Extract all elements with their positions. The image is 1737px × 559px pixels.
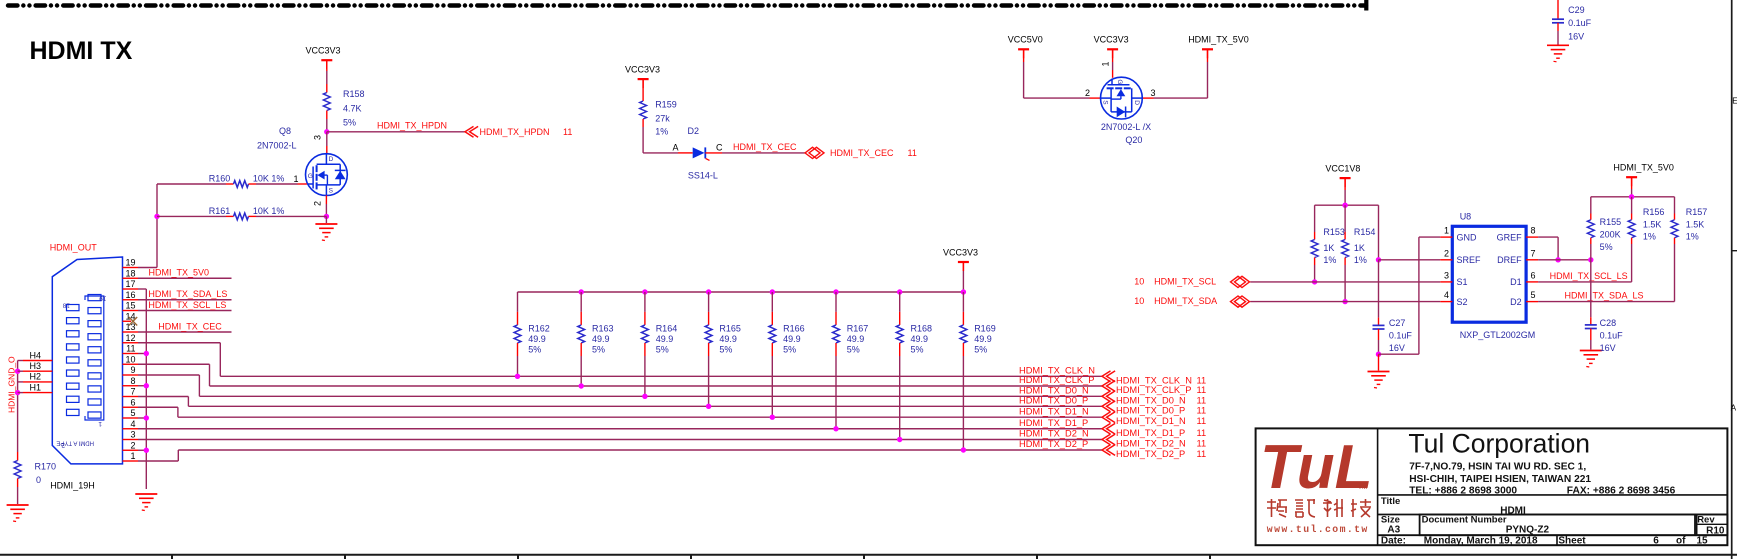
svg-text:5%: 5% [656, 345, 669, 355]
svg-text:3: 3 [1444, 270, 1449, 280]
svg-text:6: 6 [130, 397, 135, 407]
svg-text:2: 2 [1085, 88, 1090, 98]
svg-text:R165: R165 [719, 324, 741, 334]
svg-text:Title: Title [1381, 496, 1400, 507]
svg-text:R157: R157 [1686, 207, 1708, 217]
svg-text:16V: 16V [1600, 343, 1616, 353]
svg-text:D2: D2 [688, 126, 700, 136]
svg-text:8: 8 [1531, 226, 1536, 236]
svg-text:HDMI_TX_D1_N: HDMI_TX_D1_N [1116, 416, 1186, 426]
svg-text:HDMI_TX_HPDN: HDMI_TX_HPDN [377, 120, 447, 130]
svg-text:D2: D2 [1510, 297, 1522, 307]
svg-text:HDMI_TX_CEC: HDMI_TX_CEC [158, 321, 222, 331]
svg-text:1: 1 [98, 420, 102, 427]
svg-text:HDMI_TX_D1_N: HDMI_TX_D1_N [1019, 406, 1089, 416]
svg-text:Q8: Q8 [279, 126, 291, 136]
svg-text:R156: R156 [1643, 207, 1665, 217]
svg-text:1K: 1K [1323, 243, 1334, 253]
svg-text:1K: 1K [1354, 243, 1365, 253]
svg-text:Sheet: Sheet [1558, 536, 1586, 547]
svg-text:5%: 5% [783, 345, 796, 355]
svg-text:HDMI_TX_D0_N: HDMI_TX_D0_N [1019, 386, 1089, 396]
svg-text:A: A [673, 142, 679, 152]
svg-text:1: 1 [1444, 226, 1449, 236]
svg-text:S2: S2 [1457, 297, 1468, 307]
svg-text:11: 11 [1197, 395, 1207, 405]
svg-text:R163: R163 [592, 324, 614, 334]
svg-text:1: 1 [130, 451, 135, 461]
svg-text:HDMI_TX_SCL_LS: HDMI_TX_SCL_LS [148, 300, 226, 310]
svg-text:5%: 5% [343, 118, 356, 128]
svg-text:11: 11 [563, 127, 572, 137]
svg-text:4.7K: 4.7K [343, 104, 362, 114]
svg-text:R166: R166 [783, 324, 805, 334]
svg-text:5%: 5% [911, 345, 924, 355]
svg-text:TuL: TuL [1260, 433, 1373, 502]
svg-text:16V: 16V [1389, 343, 1405, 353]
svg-text:R153: R153 [1323, 227, 1345, 237]
svg-text:VCC3V3: VCC3V3 [625, 65, 660, 75]
svg-text:1%: 1% [1323, 255, 1336, 265]
svg-text:9: 9 [130, 365, 135, 375]
svg-text:HDMI_TX_D0_N: HDMI_TX_D0_N [1116, 395, 1186, 405]
svg-text:R154: R154 [1354, 227, 1376, 237]
svg-text:5%: 5% [847, 345, 860, 355]
svg-text:5%: 5% [592, 345, 605, 355]
svg-text:C29: C29 [1568, 5, 1585, 15]
svg-text:FAX: +886 2 8698 3456: FAX: +886 2 8698 3456 [1567, 486, 1676, 497]
svg-text:15: 15 [125, 301, 135, 311]
svg-text:49.9: 49.9 [719, 334, 737, 344]
svg-text:11: 11 [1197, 439, 1207, 449]
svg-text:A: A [1731, 404, 1737, 413]
svg-text:R164: R164 [656, 324, 678, 334]
svg-text:HDMI_TX_CLK_N: HDMI_TX_CLK_N [1116, 375, 1192, 385]
svg-text:VCC3V3: VCC3V3 [943, 248, 978, 258]
svg-text:SS14-L: SS14-L [688, 171, 718, 181]
svg-text:12: 12 [125, 333, 135, 343]
svg-text:18: 18 [125, 268, 135, 278]
svg-text:HDMI_TX_HPDN: HDMI_TX_HPDN [480, 127, 550, 137]
svg-text:200K: 200K [1600, 229, 1621, 239]
svg-text:HDMI TX: HDMI TX [30, 37, 133, 65]
svg-text:HDMI_TX_D2_P: HDMI_TX_D2_P [1116, 449, 1185, 459]
svg-text:19: 19 [99, 295, 107, 302]
svg-text:U8: U8 [1460, 212, 1472, 222]
svg-text:HDMI_GND_O: HDMI_GND_O [7, 356, 17, 413]
svg-text:1: 1 [294, 174, 299, 184]
svg-text:HSI-CHIH, TAIPEI HSIEN, TAI: HSI-CHIH, TAIPEI HSIEN, TAIWAN 221 [1409, 474, 1591, 485]
svg-text:C27: C27 [1389, 318, 1406, 328]
svg-text:PYNQ-Z2: PYNQ-Z2 [1506, 524, 1550, 535]
svg-text:HDMI_TX_CLK_P: HDMI_TX_CLK_P [1116, 385, 1191, 395]
svg-text:H1: H1 [30, 382, 42, 392]
svg-text:D: D [329, 156, 334, 163]
svg-text:2: 2 [313, 201, 323, 206]
svg-text:C28: C28 [1600, 318, 1617, 328]
svg-text:6: 6 [1653, 536, 1659, 547]
svg-text:11: 11 [1197, 416, 1207, 426]
svg-text:HDMI_TX_D2_N: HDMI_TX_D2_N [1019, 429, 1089, 439]
svg-text:HDMI_TX_D1_P: HDMI_TX_D1_P [1116, 428, 1185, 438]
svg-text:49.9: 49.9 [847, 334, 865, 344]
svg-text:8: 8 [130, 376, 135, 386]
svg-text:6: 6 [1531, 270, 1536, 280]
svg-text:HDMI_19H: HDMI_19H [50, 481, 95, 491]
svg-text:10: 10 [1134, 296, 1144, 306]
svg-text:HDMI_TX_SDA_LS: HDMI_TX_SDA_LS [1565, 291, 1644, 301]
svg-text:GND: GND [1457, 232, 1478, 242]
svg-text:HDMI_OUT: HDMI_OUT [50, 243, 98, 253]
svg-text:0: 0 [36, 475, 41, 485]
svg-text:HDMI_TX_5V0: HDMI_TX_5V0 [1613, 162, 1674, 172]
svg-text:H3: H3 [30, 361, 42, 371]
svg-text:R160: R160 [209, 174, 231, 184]
svg-text:HDMI_TX_D0_P: HDMI_TX_D0_P [1116, 405, 1185, 415]
svg-text:R159: R159 [655, 100, 677, 110]
svg-text:R162: R162 [528, 324, 550, 334]
svg-text:49.9: 49.9 [592, 334, 610, 344]
svg-text:0.1uF: 0.1uF [1389, 331, 1413, 341]
svg-text:H4: H4 [30, 350, 42, 360]
svg-text:R168: R168 [911, 324, 933, 334]
svg-text:Date:: Date: [1381, 536, 1406, 547]
svg-text:G: G [308, 173, 313, 180]
svg-text:HDMI_TX_CLK_N: HDMI_TX_CLK_N [1019, 366, 1095, 376]
svg-text:18: 18 [62, 302, 70, 309]
svg-text:HDMI_TX_CEC: HDMI_TX_CEC [733, 142, 797, 152]
svg-text:49.9: 49.9 [974, 334, 992, 344]
svg-text:TM: TM [1358, 484, 1367, 491]
svg-text:10K 1%: 10K 1% [253, 206, 285, 216]
svg-text:Document Number: Document Number [1422, 515, 1507, 526]
svg-text:HDMI_TX_SCL_LS: HDMI_TX_SCL_LS [1550, 271, 1628, 281]
svg-text:HDMI A TYPE: HDMI A TYPE [56, 440, 94, 446]
svg-text:15: 15 [1697, 536, 1709, 547]
svg-text:5%: 5% [974, 345, 987, 355]
svg-text:HDMI_TX_D0_P: HDMI_TX_D0_P [1019, 396, 1088, 406]
svg-text:D1: D1 [1510, 277, 1522, 287]
svg-text:1.5K: 1.5K [1686, 219, 1705, 229]
svg-text:Rev: Rev [1697, 515, 1715, 526]
svg-text:VCC1V8: VCC1V8 [1325, 164, 1360, 174]
svg-text:R170: R170 [35, 461, 57, 471]
svg-text:Monday, March 19, 2018: Monday, March 19, 2018 [1424, 536, 1538, 547]
svg-text:3: 3 [313, 135, 323, 140]
svg-text:VCC5V0: VCC5V0 [1008, 35, 1043, 45]
svg-text:7F-7,NO.79, HSIN TAI WU RD: 7F-7,NO.79, HSIN TAI WU RD. SEC 1, [1409, 461, 1586, 472]
svg-text:DREF: DREF [1497, 255, 1522, 265]
svg-text:R10: R10 [1706, 526, 1725, 537]
svg-text:of: of [1676, 536, 1686, 547]
svg-text:0.1uF: 0.1uF [1568, 18, 1592, 28]
svg-text:2: 2 [130, 440, 135, 450]
svg-text:GREF: GREF [1497, 232, 1523, 242]
svg-text:2N7002-L /X: 2N7002-L /X [1101, 122, 1151, 132]
svg-text:S1: S1 [1457, 277, 1468, 287]
svg-text:4: 4 [1444, 290, 1449, 300]
svg-text:2: 2 [1444, 248, 1449, 258]
svg-text:16V: 16V [1568, 31, 1584, 41]
svg-text:19: 19 [125, 258, 135, 268]
svg-text:R167: R167 [847, 324, 869, 334]
svg-text:HDMI_TX_D1_P: HDMI_TX_D1_P [1019, 418, 1088, 428]
svg-text:1%: 1% [1643, 232, 1656, 242]
svg-text:27k: 27k [655, 114, 670, 124]
svg-text:TEL: +886 2 8698 3000: TEL: +886 2 8698 3000 [1409, 486, 1517, 497]
svg-text:7: 7 [130, 387, 135, 397]
svg-text:VCC3V3: VCC3V3 [1094, 35, 1129, 45]
svg-text:3: 3 [130, 430, 135, 440]
svg-text:5: 5 [130, 408, 135, 418]
svg-text:H2: H2 [30, 372, 42, 382]
svg-text:1%: 1% [1686, 232, 1699, 242]
svg-text:11: 11 [908, 148, 917, 158]
svg-text:HDMI_TX_SDA: HDMI_TX_SDA [1154, 296, 1217, 306]
svg-text:HDMI_TX_SCL: HDMI_TX_SCL [1154, 276, 1216, 286]
svg-text:HDMI_TX_5V0: HDMI_TX_5V0 [149, 268, 210, 278]
svg-text:A3: A3 [1387, 524, 1400, 535]
svg-text:www.tul.com.tw: www.tul.com.tw [1267, 524, 1369, 535]
svg-text:7: 7 [1531, 248, 1536, 258]
svg-text:11: 11 [1197, 385, 1207, 395]
svg-text:2N7002-L: 2N7002-L [257, 140, 297, 150]
svg-text:R155: R155 [1600, 217, 1622, 227]
svg-text:HDMI_TX_5V0: HDMI_TX_5V0 [1188, 35, 1249, 45]
svg-text:E: E [1732, 97, 1737, 106]
svg-text:5%: 5% [1600, 242, 1613, 252]
svg-text:R169: R169 [974, 324, 996, 334]
svg-text:Tul Corporation: Tul Corporation [1408, 429, 1590, 459]
svg-text:1.5K: 1.5K [1643, 219, 1662, 229]
svg-text:HDMI_TX_D2_P: HDMI_TX_D2_P [1019, 439, 1088, 449]
svg-text:49.9: 49.9 [528, 334, 546, 344]
svg-text:HDMI_TX_CEC: HDMI_TX_CEC [830, 148, 894, 158]
svg-text:11: 11 [1197, 375, 1207, 385]
svg-text:HDMI_TX_D2_N: HDMI_TX_D2_N [1116, 439, 1186, 449]
svg-text:R161: R161 [209, 206, 231, 216]
svg-text:1%: 1% [655, 127, 668, 137]
svg-text:10: 10 [125, 354, 135, 364]
svg-text:5: 5 [1531, 290, 1536, 300]
svg-text:49.9: 49.9 [656, 334, 674, 344]
svg-text:HDMI_TX_CLK_P: HDMI_TX_CLK_P [1019, 375, 1094, 385]
svg-text:SREF: SREF [1457, 255, 1482, 265]
svg-text:49.9: 49.9 [911, 334, 929, 344]
svg-text:VCC3V3: VCC3V3 [306, 45, 341, 55]
svg-text:S: S [329, 188, 334, 195]
svg-text:3: 3 [1151, 88, 1156, 98]
svg-text:49.9: 49.9 [783, 334, 801, 344]
svg-text:10K 1%: 10K 1% [253, 174, 285, 184]
svg-text:C: C [716, 142, 723, 152]
svg-text:11: 11 [126, 344, 135, 354]
svg-text:16: 16 [125, 290, 135, 300]
svg-text:5%: 5% [719, 345, 732, 355]
svg-text:R158: R158 [343, 89, 365, 99]
svg-text:4: 4 [130, 419, 135, 429]
svg-text:17: 17 [125, 279, 135, 289]
svg-text:1%: 1% [1354, 255, 1367, 265]
svg-text:Q20: Q20 [1125, 135, 1142, 145]
svg-text:11: 11 [1197, 428, 1207, 438]
svg-text:11: 11 [1197, 405, 1207, 415]
svg-text:10: 10 [1134, 276, 1144, 286]
svg-text:1: 1 [1101, 61, 1111, 66]
svg-text:NXP_GTL2002GM: NXP_GTL2002GM [1460, 330, 1536, 340]
svg-text:11: 11 [1197, 449, 1207, 459]
svg-text:HDMI_TX_SDA_LS: HDMI_TX_SDA_LS [148, 289, 227, 299]
svg-text:0.1uF: 0.1uF [1600, 331, 1624, 341]
svg-text:5%: 5% [528, 345, 541, 355]
